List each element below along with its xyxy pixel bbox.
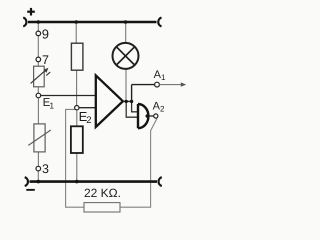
svg-text:7: 7 [42,53,49,67]
svg-text:1: 1 [49,101,54,111]
svg-text:3: 3 [42,162,49,176]
svg-text:2: 2 [86,115,91,126]
svg-text:9: 9 [42,27,49,42]
svg-text:1: 1 [161,73,166,82]
svg-text:22 KΩ.: 22 KΩ. [84,186,121,200]
svg-text:2: 2 [160,105,165,114]
